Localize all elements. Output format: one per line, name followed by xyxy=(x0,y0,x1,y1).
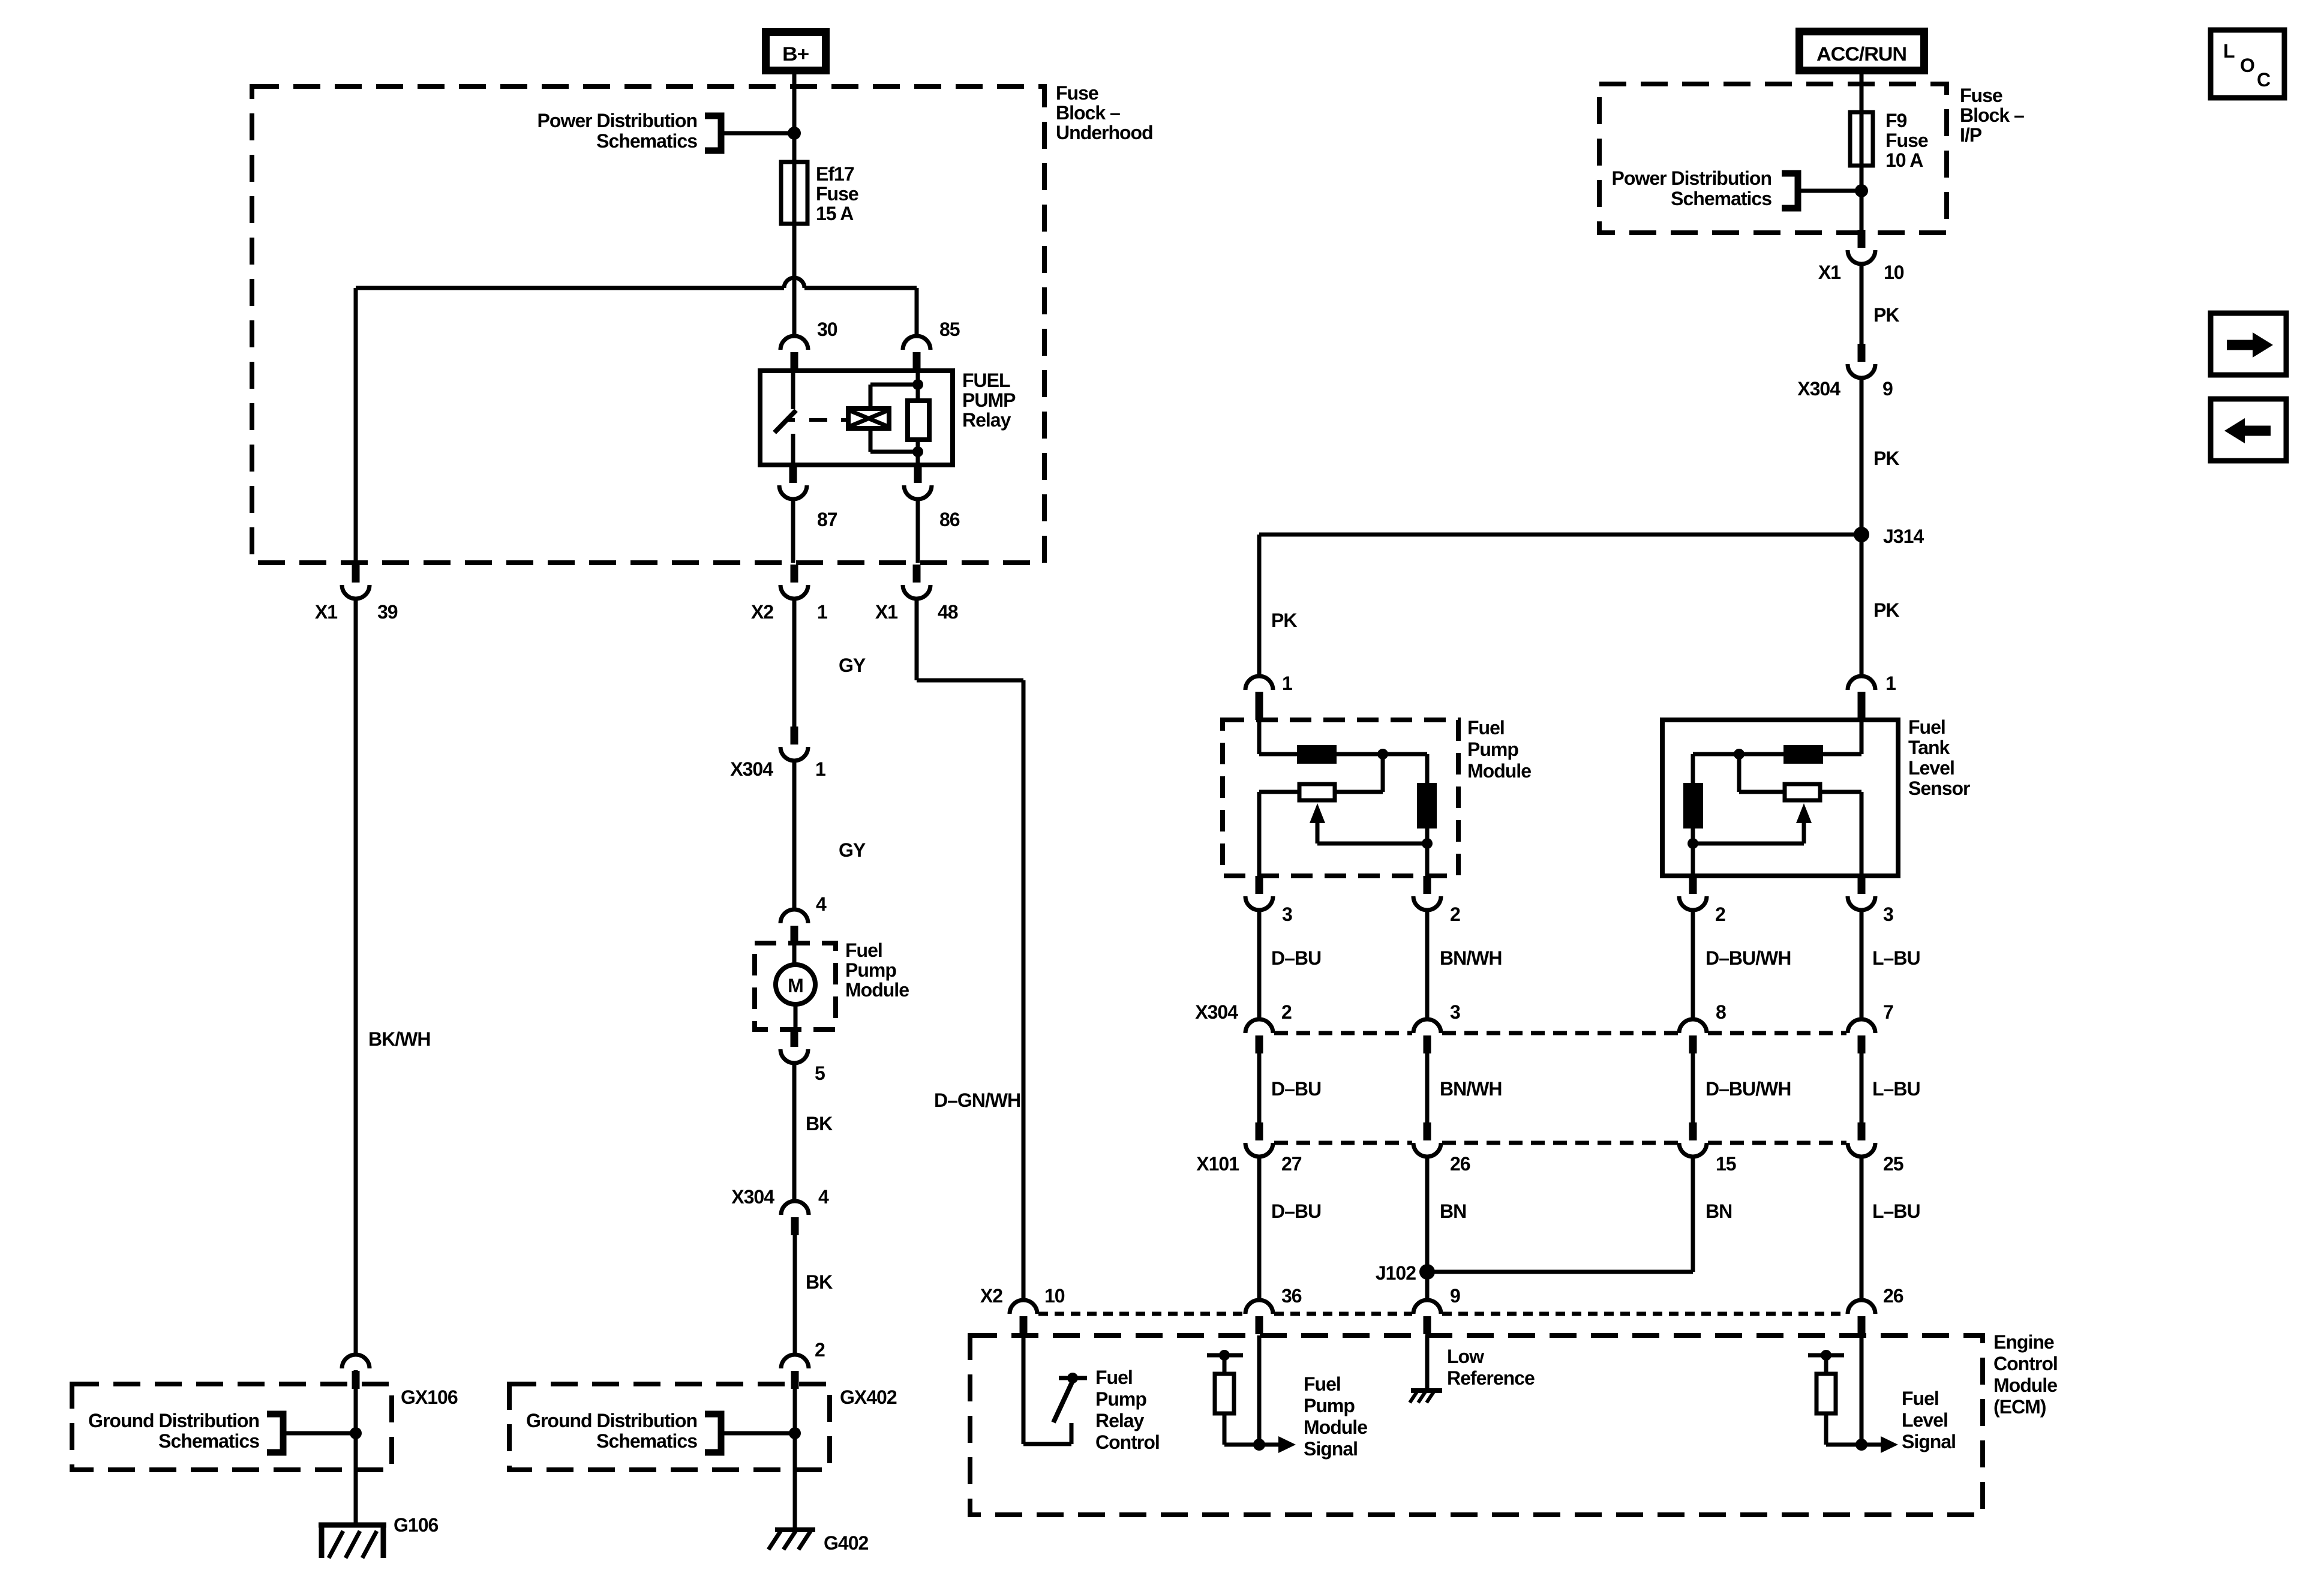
svg-text:X304: X304 xyxy=(730,758,773,780)
label 26 (ECM) xyxy=(1883,1285,1903,1307)
bracket for power distribution (underhood) xyxy=(705,116,721,151)
wire L-BU X304 to X101 xyxy=(1860,1053,1864,1122)
FPM pot left link xyxy=(1259,792,1299,876)
label X1 (10) xyxy=(1818,262,1840,283)
svg-text:7: 7 xyxy=(1883,1001,1893,1023)
svg-text:9: 9 xyxy=(1882,378,1893,400)
relay box FUEL PUMP Relay xyxy=(760,371,953,465)
label G402 xyxy=(824,1532,868,1554)
svg-text:3: 3 xyxy=(1450,1001,1460,1023)
connector X1 48 xyxy=(903,565,930,599)
wire PK X1-10 to X304 9 xyxy=(1860,264,1864,344)
label 39 xyxy=(377,601,398,623)
dashed box Fuel Pump Module (sender) xyxy=(1223,720,1458,876)
svg-text:3: 3 xyxy=(1883,903,1893,925)
connector ECM 26 xyxy=(1848,1300,1875,1334)
FPM sense resistor (filled) xyxy=(1297,745,1337,764)
connector X101 27 xyxy=(1245,1122,1273,1157)
relay internal resistor xyxy=(908,371,929,465)
ground low reference symbol xyxy=(1410,1391,1442,1403)
stub FTLS pin1 into box xyxy=(1858,692,1866,720)
label 5 (pump) xyxy=(815,1062,825,1084)
label D-BU/WH row1 xyxy=(1706,947,1791,969)
label X101 row xyxy=(1196,1153,1239,1175)
svg-text:Block –: Block – xyxy=(1960,104,2024,126)
LOC reference box xyxy=(2211,30,2284,98)
svg-text:1: 1 xyxy=(815,758,825,780)
label BN row3 left xyxy=(1440,1200,1466,1222)
connector X1 10 xyxy=(1848,230,1875,264)
label 48 xyxy=(938,601,958,623)
junction dot coil top xyxy=(912,379,923,390)
power symbol ACC/RUN box xyxy=(1800,32,1924,71)
svg-text:Underhood: Underhood xyxy=(1056,122,1153,143)
wire GX402 stub through box xyxy=(793,1388,797,1470)
svg-text:1: 1 xyxy=(817,601,827,623)
wire BK X304-4 down xyxy=(793,1235,797,1355)
svg-text:48: 48 xyxy=(938,601,958,623)
svg-text:X304: X304 xyxy=(731,1186,774,1208)
label 2 (GX402) xyxy=(815,1339,825,1361)
label L-BU row2 xyxy=(1872,1078,1920,1100)
label Fuse Block - Underhood xyxy=(1056,82,1153,143)
wire pin4 into motor xyxy=(792,943,797,966)
connector ECM 36 xyxy=(1245,1300,1273,1334)
svg-text:10: 10 xyxy=(1884,262,1904,283)
junction dot coil bottom xyxy=(912,446,923,457)
label D-BU row3 xyxy=(1271,1200,1321,1222)
dashed box Engine Control Module ECM xyxy=(970,1335,1983,1515)
wire motor to pin 5 xyxy=(794,1004,798,1029)
FTLS left branch down xyxy=(1691,754,1695,783)
svg-text:Control: Control xyxy=(1993,1353,2058,1374)
svg-text:8: 8 xyxy=(1716,1001,1726,1023)
label 2 (FTLS) xyxy=(1715,903,1725,925)
label 26 (X101) xyxy=(1450,1153,1470,1175)
relay coil symbol box with X xyxy=(848,409,889,428)
label X1 (48) xyxy=(875,601,897,623)
connector fuel pump pin 4 xyxy=(780,909,808,944)
wire GX106 stub through box xyxy=(354,1370,358,1470)
ECM driver switch xyxy=(1053,1373,1087,1422)
svg-text:X2: X2 xyxy=(751,601,773,623)
connector FTLS pin 1 xyxy=(1848,676,1875,710)
svg-text:B+: B+ xyxy=(782,43,809,65)
label Fuel Pump Module (motor) xyxy=(845,939,909,1001)
label F9 Fuse 10 A xyxy=(1885,110,1928,171)
row line X101 xyxy=(1274,1141,1846,1145)
FTLS left branch to bottom xyxy=(1691,828,1695,876)
svg-text:X1: X1 xyxy=(875,601,897,623)
label PK left branch xyxy=(1271,610,1297,631)
FPM pot right link xyxy=(1335,754,1383,792)
arrow FPM signal xyxy=(1259,1436,1296,1453)
svg-text:J102: J102 xyxy=(1376,1262,1416,1284)
wire ECM 36 internal xyxy=(1257,1335,1262,1445)
svg-text:GX106: GX106 xyxy=(401,1386,458,1408)
wire GY X304-1 to fuel pump xyxy=(792,761,797,909)
label 36 xyxy=(1281,1285,1302,1307)
connector 2 above GX402 xyxy=(781,1355,809,1389)
label PK 3 xyxy=(1873,599,1899,621)
svg-text:Schematics: Schematics xyxy=(596,1430,697,1452)
svg-text:Relay: Relay xyxy=(962,409,1011,431)
FPM right branch down xyxy=(1425,754,1430,783)
label 10 xyxy=(1884,262,1904,283)
relay linkage dashes xyxy=(809,418,848,422)
label 86 xyxy=(939,509,960,530)
label GX106 xyxy=(401,1386,458,1408)
wire BK/WH X1-39 down to GX106 xyxy=(354,599,358,1355)
connector X1 39 xyxy=(342,565,370,599)
svg-text:2: 2 xyxy=(1281,1001,1292,1023)
FTLS junction dot top xyxy=(1734,749,1744,760)
FTLS pump resistor (filled) xyxy=(1683,783,1703,828)
svg-text:X101: X101 xyxy=(1196,1153,1239,1175)
svg-text:Ground Distribution: Ground Distribution xyxy=(88,1410,259,1431)
label 10 (X2) xyxy=(1044,1285,1065,1307)
wire pin 87 to X2 1 xyxy=(791,499,795,563)
wire D-BU X101 to ECM 36 xyxy=(1257,1157,1262,1300)
svg-text:ACC/RUN: ACC/RUN xyxy=(1816,43,1906,65)
connector X304 1 xyxy=(780,727,808,761)
connector X304 2 xyxy=(1245,1019,1273,1053)
label Engine Control Module (ECM) xyxy=(1993,1331,2058,1418)
dashed box Fuse Block - Underhood xyxy=(252,86,1044,563)
wire BK pin5 to X304 4 xyxy=(792,1063,797,1201)
svg-text:BN/WH: BN/WH xyxy=(1440,947,1502,969)
wire PK X304-9 to J314 xyxy=(1860,378,1864,535)
label 2 (X304row) xyxy=(1281,1001,1292,1023)
svg-text:9: 9 xyxy=(1450,1285,1460,1307)
label Power Distribution Schematics (underhood) xyxy=(538,110,698,152)
label L-BU row3 xyxy=(1872,1200,1920,1222)
wire D-GN/WH jog from X1 48 xyxy=(917,599,1023,1300)
svg-text:Fuse: Fuse xyxy=(1885,130,1928,151)
svg-text:BN: BN xyxy=(1706,1200,1732,1222)
fuse Ef17 15A symbol xyxy=(781,162,807,224)
svg-text:BK: BK xyxy=(806,1271,833,1293)
wire left branch down to X1 39 xyxy=(354,288,358,563)
svg-text:X1: X1 xyxy=(1818,262,1840,283)
dashed box Fuse Block - I/P xyxy=(1599,84,1947,233)
svg-text:Signal: Signal xyxy=(1902,1431,1956,1452)
label X2 (1) xyxy=(751,601,773,623)
FPM wiper arrow xyxy=(1310,803,1427,843)
wire PK down to FTLS xyxy=(1860,535,1864,676)
connector FTLS pin 2 xyxy=(1679,876,1707,910)
FTLS wiper arrow xyxy=(1693,803,1812,843)
arrow box right xyxy=(2211,313,2286,375)
label D-BU row2 xyxy=(1271,1078,1321,1100)
FPM junction dot bottom xyxy=(1422,838,1433,849)
svg-text:PUMP: PUMP xyxy=(962,389,1016,411)
wire L-BU X101 to ECM 26 xyxy=(1860,1157,1864,1300)
svg-text:2: 2 xyxy=(1715,903,1725,925)
label 1 (FTLS pin1) xyxy=(1885,673,1896,694)
label X304 (4) xyxy=(731,1186,774,1208)
svg-text:Pump: Pump xyxy=(1467,739,1518,760)
wire relay coil branch down to pin 85 xyxy=(915,288,919,336)
FTLS wire resistor to corner xyxy=(1693,752,1783,757)
svg-text:BN: BN xyxy=(1440,1200,1466,1222)
svg-text:26: 26 xyxy=(1450,1153,1470,1175)
fuse F9 10A symbol xyxy=(1850,112,1873,166)
svg-text:2: 2 xyxy=(815,1339,825,1361)
svg-text:Pump: Pump xyxy=(845,959,896,981)
FPM right branch to bottom xyxy=(1425,828,1430,876)
svg-text:Power Distribution: Power Distribution xyxy=(538,110,697,131)
label FUEL PUMP Relay xyxy=(962,370,1016,431)
FTLS junction dot bottom xyxy=(1688,838,1698,849)
svg-text:Reference: Reference xyxy=(1447,1367,1535,1389)
junction dot FPM signal xyxy=(1253,1439,1265,1451)
FPM potentiometer (open) xyxy=(1299,784,1335,800)
label 4 (X304) xyxy=(818,1186,829,1208)
svg-text:10: 10 xyxy=(1044,1285,1065,1307)
label Fuel Pump Module Signal xyxy=(1304,1373,1367,1460)
svg-text:(ECM): (ECM) xyxy=(1993,1396,2046,1418)
label Ground Distribution Schematics (GX106) xyxy=(88,1410,259,1452)
bracket GX402 xyxy=(705,1414,721,1452)
svg-text:Relay: Relay xyxy=(1095,1410,1145,1431)
wire BN/WH X304 to X101 xyxy=(1425,1053,1430,1122)
wire bracket to G402 wire xyxy=(721,1431,795,1436)
label Ground Distribution Schematics (GX402) xyxy=(526,1410,697,1452)
svg-text:D–BU: D–BU xyxy=(1271,947,1321,969)
wire F9 to X1 10 xyxy=(1860,166,1864,233)
wire bracket to junction xyxy=(721,131,794,136)
connector X304 8 xyxy=(1679,1019,1707,1053)
svg-text:L–BU: L–BU xyxy=(1872,1078,1920,1100)
svg-text:Level: Level xyxy=(1902,1409,1948,1431)
arrow fuel level signal xyxy=(1861,1436,1898,1453)
label BN/WH row2 xyxy=(1440,1078,1502,1100)
wire low reference xyxy=(1425,1335,1430,1391)
label 87 xyxy=(817,509,837,530)
label Fuel Pump Module (sender) xyxy=(1467,717,1531,782)
label BN row3 right xyxy=(1706,1200,1732,1222)
label 15 xyxy=(1716,1153,1736,1175)
connector X304 4 xyxy=(781,1201,809,1235)
wire bracket to G106 wire xyxy=(283,1431,356,1436)
junction dot on B+ feed xyxy=(788,127,801,140)
FTLS pot right link xyxy=(1820,792,1861,876)
svg-text:D–BU/WH: D–BU/WH xyxy=(1706,1078,1791,1100)
junction dot GX402 xyxy=(789,1427,801,1439)
svg-text:36: 36 xyxy=(1281,1285,1302,1307)
bracket power distribution IP xyxy=(1782,173,1798,208)
svg-text:26: 26 xyxy=(1883,1285,1903,1307)
connector FPM pin 2 xyxy=(1413,876,1441,910)
power symbol B+ terminal box xyxy=(766,32,826,71)
connector ECM 9 xyxy=(1413,1300,1441,1334)
dashed box GX402 xyxy=(509,1384,830,1470)
svg-text:Schematics: Schematics xyxy=(158,1430,259,1452)
svg-text:Fuel: Fuel xyxy=(1095,1367,1133,1388)
label 1 (X2) xyxy=(817,601,827,623)
FPM wire pin1 internal xyxy=(1259,720,1297,754)
connector relay pin 85 xyxy=(903,336,930,370)
svg-text:Fuel: Fuel xyxy=(1908,716,1945,738)
label D-BU/WH row2 xyxy=(1706,1078,1791,1100)
label Fuel Pump Relay Control xyxy=(1095,1367,1160,1453)
label PK 1 xyxy=(1873,304,1899,326)
label Power Distribution Schematics (IP) xyxy=(1612,167,1772,209)
bracket GX106 xyxy=(267,1414,283,1452)
label 9 (X304) xyxy=(1882,378,1893,400)
connector X304 7 xyxy=(1848,1019,1875,1053)
wire pin 86 to X1 48 xyxy=(916,499,920,563)
connector FTLS pin 3 xyxy=(1848,876,1875,910)
connector X101 25 xyxy=(1848,1122,1875,1157)
svg-text:Ef17: Ef17 xyxy=(816,163,854,185)
label 30 xyxy=(817,319,837,340)
label D-GN/WH xyxy=(934,1089,1020,1111)
svg-text:3: 3 xyxy=(1282,903,1292,925)
label X304 (1) xyxy=(730,758,773,780)
junction dot GX106 xyxy=(350,1427,362,1439)
svg-text:30: 30 xyxy=(817,319,837,340)
svg-text:F9: F9 xyxy=(1885,110,1907,131)
label GY lower xyxy=(839,839,866,861)
label PK 2 xyxy=(1873,448,1899,469)
svg-text:J314: J314 xyxy=(1883,526,1924,547)
connector X304 9 xyxy=(1848,344,1875,378)
svg-text:87: 87 xyxy=(817,509,837,530)
svg-text:PK: PK xyxy=(1873,599,1899,621)
svg-text:L–BU: L–BU xyxy=(1872,1200,1920,1222)
svg-text:X304: X304 xyxy=(1797,378,1840,400)
svg-text:M: M xyxy=(788,975,803,996)
svg-text:FUEL: FUEL xyxy=(962,370,1010,391)
label BK/WH xyxy=(368,1028,430,1050)
svg-text:Fuel: Fuel xyxy=(1304,1373,1341,1395)
connector fuel pump pin 5 xyxy=(780,1029,808,1063)
svg-text:Module: Module xyxy=(1467,760,1531,782)
svg-text:I/P: I/P xyxy=(1960,124,1982,146)
wire D-BU FPM3 to X304 2 xyxy=(1257,910,1262,1019)
FTLS sense resistor (filled) xyxy=(1783,745,1823,764)
wire fuel pump relay control xyxy=(1023,1335,1071,1444)
junction splice J102 xyxy=(1419,1264,1693,1280)
svg-text:1: 1 xyxy=(1282,673,1292,694)
wire ACC/RUN to fuse F9 xyxy=(1860,74,1864,112)
solid box Fuel Tank Level Sensor xyxy=(1662,720,1898,876)
dashed box GX106 xyxy=(72,1384,392,1470)
svg-text:Fuel: Fuel xyxy=(1467,717,1505,739)
svg-text:Fuse: Fuse xyxy=(1056,82,1098,104)
svg-text:Control: Control xyxy=(1095,1431,1160,1453)
svg-text:25: 25 xyxy=(1883,1153,1903,1175)
svg-text:Schematics: Schematics xyxy=(596,130,697,152)
label 3 (X304row) xyxy=(1450,1001,1460,1023)
label X304 row xyxy=(1195,1001,1238,1023)
label Fuel Level Signal xyxy=(1902,1388,1956,1452)
label Low Reference xyxy=(1447,1346,1535,1389)
svg-text:10 A: 10 A xyxy=(1885,149,1923,171)
junction dot fuel level signal xyxy=(1855,1439,1867,1451)
label 9 (ECM) xyxy=(1450,1285,1460,1307)
svg-text:X2: X2 xyxy=(980,1285,1002,1307)
svg-text:GY: GY xyxy=(839,839,866,861)
ground G402 symbol xyxy=(768,1530,815,1550)
label 7 (X304row) xyxy=(1883,1001,1893,1023)
svg-text:4: 4 xyxy=(818,1186,829,1208)
svg-text:Pump: Pump xyxy=(1095,1388,1146,1410)
wire fuse to relay branch node xyxy=(792,224,797,336)
label G106 xyxy=(394,1514,438,1536)
row line ECM connectors xyxy=(1038,1312,1846,1316)
arrow box left xyxy=(2211,399,2286,461)
svg-text:L: L xyxy=(2223,40,2235,62)
wire BN/WH FPM2 to X304 3 xyxy=(1425,910,1430,1019)
stub FPM pin1 into box xyxy=(1256,692,1263,720)
label 3 (FPM) xyxy=(1282,903,1292,925)
svg-text:Fuse: Fuse xyxy=(816,183,858,205)
svg-text:BN/WH: BN/WH xyxy=(1440,1078,1502,1100)
svg-text:Power Distribution: Power Distribution xyxy=(1612,167,1771,189)
ECM pull-up resistor (FPM signal) xyxy=(1207,1350,1259,1445)
connector X304 3 xyxy=(1413,1019,1441,1053)
ECM pull-up resistor (fuel level) xyxy=(1808,1350,1861,1445)
svg-text:Block –: Block – xyxy=(1056,102,1120,124)
svg-text:D–GN/WH: D–GN/WH xyxy=(934,1089,1020,1111)
svg-text:2: 2 xyxy=(1450,903,1460,925)
label X2 (10) xyxy=(980,1285,1002,1307)
relay coil top wire xyxy=(870,385,918,409)
svg-text:15: 15 xyxy=(1716,1153,1736,1175)
svg-text:4: 4 xyxy=(816,893,827,915)
svg-text:85: 85 xyxy=(939,319,960,340)
label BK upper xyxy=(806,1113,833,1134)
wire horizontal branch at node with hop arc xyxy=(356,278,917,288)
svg-text:D–BU: D–BU xyxy=(1271,1078,1321,1100)
wire BN X101-15 to J102 xyxy=(1691,1157,1695,1272)
svg-text:39: 39 xyxy=(377,601,398,623)
label X1 (39) xyxy=(315,601,337,623)
connector X2 10 xyxy=(1010,1300,1037,1334)
wire ECM 26 internal xyxy=(1860,1335,1864,1445)
FTLS wire pin1 internal xyxy=(1822,720,1861,754)
label 1 (FPM pin1) xyxy=(1282,673,1292,694)
label GY upper xyxy=(839,655,866,676)
label 27 xyxy=(1281,1153,1302,1175)
svg-text:L–BU: L–BU xyxy=(1872,947,1920,969)
wire GX106 to ground xyxy=(354,1470,358,1525)
FTLS pot left link xyxy=(1739,754,1785,792)
label Ef17 Fuse 15 A xyxy=(816,163,858,224)
svg-text:1: 1 xyxy=(1885,673,1896,694)
label 3 (FTLS) xyxy=(1883,903,1893,925)
svg-text:Level: Level xyxy=(1908,757,1954,779)
label BN/WH row1 xyxy=(1440,947,1502,969)
svg-text:X304: X304 xyxy=(1195,1001,1238,1023)
label 1 (X304) xyxy=(815,758,825,780)
label 8 (X304row) xyxy=(1716,1001,1726,1023)
junction splice J314 xyxy=(1854,527,1869,542)
connector X101 15 xyxy=(1679,1122,1707,1157)
svg-text:PK: PK xyxy=(1873,304,1899,326)
junction dot IP feed xyxy=(1855,184,1868,197)
label J102 xyxy=(1376,1262,1416,1284)
label D-BU row1 xyxy=(1271,947,1321,969)
connector FPM pin 1 xyxy=(1245,676,1273,710)
connector X2 1 xyxy=(780,565,808,599)
svg-text:C: C xyxy=(2257,69,2271,91)
svg-text:86: 86 xyxy=(939,509,960,530)
label 85 xyxy=(939,319,960,340)
